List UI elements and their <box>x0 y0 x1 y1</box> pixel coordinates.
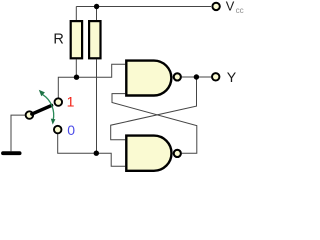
junction Y node <box>194 74 199 79</box>
wire node R: contact0 to gate2 input B <box>58 134 126 166</box>
switch pole <box>26 111 34 119</box>
junction node R <box>94 151 99 156</box>
resistor R right <box>89 21 100 58</box>
toggle arrowhead up <box>39 90 45 96</box>
junction node S <box>74 75 79 80</box>
wire gate2 output feedback to gate1 input <box>112 94 197 154</box>
svg-text:Y: Y <box>227 70 237 86</box>
svg-text:1: 1 <box>67 94 75 110</box>
switch lever <box>32 105 52 114</box>
NAND gate U1 output bubble <box>174 73 181 80</box>
svg-text:R: R <box>53 31 63 47</box>
wire left resistor bottom to node S <box>75 59 77 77</box>
wire feedback Y to gate2 input <box>111 77 197 140</box>
svg-text:cc: cc <box>236 6 244 15</box>
svg-text:0: 0 <box>67 122 75 138</box>
Vcc terminal <box>212 3 219 10</box>
NAND gate U2 body <box>126 136 171 171</box>
NAND gate U2 output bubble <box>174 150 181 157</box>
wire gate1 output to Y terminal <box>182 76 211 78</box>
wire left resistor top <box>75 7 77 21</box>
wire pole to ground <box>11 115 25 151</box>
NAND gate U1 body <box>126 61 171 96</box>
toggle arrow arc <box>43 95 54 121</box>
resistor R left <box>71 21 82 58</box>
wire right resistor top <box>96 7 98 21</box>
junction top rail <box>94 4 99 9</box>
toggle arrowhead down <box>51 119 56 125</box>
wire right resistor bottom to node R <box>96 59 98 153</box>
switch contact 1 <box>55 98 63 106</box>
Y terminal <box>212 73 219 80</box>
wire node S: contact1 to gate1 input A <box>58 64 125 98</box>
ground <box>3 151 20 155</box>
wire Vcc top rail <box>76 6 211 8</box>
switch contact 0 <box>54 126 62 134</box>
svg-text:V: V <box>226 0 235 13</box>
